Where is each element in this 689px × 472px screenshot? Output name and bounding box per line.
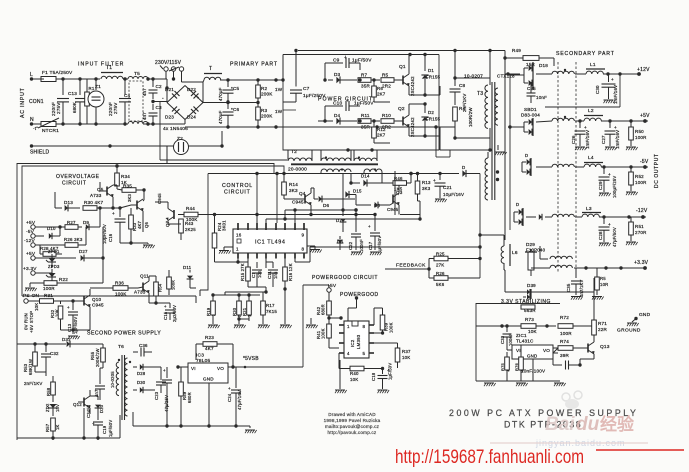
- svg-text:R15 27K: R15 27K: [240, 263, 245, 281]
- resistor R5 10R: [595, 268, 609, 295]
- red url fanhuanli: [395, 446, 584, 468]
- svg-text:4n7: 4n7: [142, 88, 147, 96]
- svg-text:AC INPUT: AC INPUT: [20, 87, 26, 118]
- svg-text:R31: R31: [44, 293, 53, 298]
- svg-text:+5V STOP: +5V STOP: [29, 311, 34, 333]
- block label INPUT FILTER: [78, 62, 124, 68]
- ground: [605, 147, 617, 150]
- svg-text:3K01: 3K01: [222, 220, 227, 231]
- svg-text:200K: 200K: [261, 114, 273, 119]
- svg-text:C36: C36: [139, 343, 148, 348]
- capacitor C15 2u2/50V: [163, 303, 177, 322]
- resistor R17 7K15: [261, 292, 278, 321]
- wire vertical x=160: [159, 102, 161, 161]
- wire shield: [30, 144, 224, 147]
- capacitor C27 1mF/16V: [601, 121, 620, 149]
- svg-text:-t°: -t°: [33, 126, 38, 131]
- wire: [225, 287, 268, 294]
- svg-text:R6: R6: [377, 86, 383, 91]
- svg-text:100K: 100K: [171, 280, 176, 290]
- capacitor C16 10uF/50V: [102, 208, 126, 244]
- svg-text:D29: D29: [526, 242, 535, 247]
- svg-text:du: du: [576, 414, 600, 435]
- svg-text:230V/115V: 230V/115V: [155, 60, 182, 66]
- ground: [495, 145, 507, 155]
- svg-text:R2: R2: [261, 86, 268, 91]
- wire vertical x277: [275, 172, 278, 223]
- svg-text:Bai: Bai: [545, 414, 575, 435]
- capacitor C35 4n7/1KV: [566, 268, 584, 297]
- svg-text:SBD1: SBD1: [524, 107, 537, 112]
- svg-text:D: D: [525, 153, 528, 158]
- svg-text:2SC4242: 2SC4242: [410, 117, 415, 137]
- transistor Q1 2SC4242: [399, 55, 415, 97]
- svg-text:35R: 35R: [361, 84, 371, 89]
- wire: [282, 172, 285, 182]
- svg-text:275V: 275V: [113, 102, 118, 114]
- capacitor C1 10n: [251, 262, 262, 287]
- resistor R74 39R: [553, 339, 586, 358]
- svg-text:Drawed with AmiCAD: Drawed with AmiCAD: [328, 412, 376, 417]
- resistor R31 10K: [34, 299, 78, 311]
- resistor R2 200K 1W: [256, 78, 283, 102]
- resistor R54: [149, 276, 163, 303]
- svg-text:D15: D15: [353, 189, 362, 194]
- svg-text:+: +: [608, 172, 611, 177]
- ground: [604, 100, 616, 103]
- wire bottom rail: [17, 408, 120, 440]
- resistor R46 1K5: [393, 172, 413, 192]
- wire: [61, 315, 91, 334]
- fuse F1: [41, 70, 73, 82]
- svg-text:C22: C22: [348, 241, 353, 250]
- schottky diode D29 F12C20: [525, 242, 546, 276]
- ground: [306, 318, 318, 328]
- svg-text:-12V: -12V: [636, 208, 648, 214]
- terminal +5V: [26, 220, 46, 229]
- svg-text:D28: D28: [137, 371, 146, 376]
- resistor R33 4K7: [129, 208, 142, 243]
- wire horizontal 173.5: [409, 172, 412, 175]
- svg-text:+: +: [163, 368, 166, 373]
- svg-text:100R: 100R: [560, 331, 572, 336]
- ground: [280, 291, 292, 328]
- svg-text:DC OUTPUT: DC OUTPUT: [654, 153, 660, 188]
- wire: [409, 127, 490, 150]
- capacitor C2 4n7: [142, 79, 162, 99]
- wire: [61, 77, 97, 80]
- bridge rectifier diode D23: [165, 103, 185, 120]
- resistor R3 200K 1W: [256, 102, 283, 129]
- control block box: [200, 172, 448, 290]
- transistor Q6 C945: [131, 190, 162, 232]
- varistor Z1: [88, 79, 104, 124]
- svg-text:VI: VI: [516, 348, 521, 353]
- capacitor C30 1mF/16V: [595, 74, 618, 104]
- wire +5VSB rail: [258, 285, 329, 367]
- label DC OUTPUT: [654, 153, 660, 188]
- svg-text:C19: C19: [102, 425, 107, 434]
- terminal +5V c: [327, 283, 337, 300]
- label CTX12B: [497, 72, 520, 78]
- wire from T3 to top: [488, 49, 491, 78]
- ground: [307, 246, 322, 253]
- wire: [213, 295, 260, 319]
- inductor L6: [501, 240, 518, 270]
- resistor R43 2K25: [168, 219, 196, 240]
- wire: [188, 131, 222, 146]
- ground: [484, 383, 496, 386]
- resistor R51 270R: [629, 217, 647, 241]
- svg-text:Q2: Q2: [398, 106, 405, 112]
- svg-text:R16 12K: R16 12K: [288, 263, 293, 281]
- svg-text:IC1 TL494: IC1 TL494: [255, 240, 285, 246]
- zener ZD2 18V: [45, 396, 60, 416]
- resistor R57 1K: [45, 418, 60, 440]
- inductor L2: [575, 108, 648, 121]
- +12V output: [606, 67, 650, 76]
- svg-text:R13: R13: [422, 180, 431, 185]
- svg-text:1998,1999 Pavel Ruzicka: 1998,1999 Pavel Ruzicka: [324, 418, 381, 423]
- svg-text:R43: R43: [185, 221, 194, 226]
- svg-text:+: +: [228, 386, 231, 391]
- block label POWER CIRCUIT: [318, 97, 373, 103]
- shield label: [30, 150, 49, 156]
- resistor R4 100R/2W: [453, 106, 473, 140]
- ground: [571, 297, 583, 300]
- resistor 563R: [521, 305, 536, 313]
- ground: [592, 297, 604, 300]
- svg-text:SECOND POWER SUPPLY: SECOND POWER SUPPLY: [87, 331, 161, 337]
- svg-text:D: D: [462, 165, 465, 170]
- diode D14: [349, 174, 393, 187]
- wire bottom rail: [185, 125, 455, 128]
- svg-text:+: +: [614, 125, 617, 130]
- capacitor C10 1uF/50V: [323, 98, 374, 123]
- svg-text:POWERGOOD CIRCUIT: POWERGOOD CIRCUIT: [312, 275, 378, 281]
- transistor Q5 A733: [90, 182, 117, 208]
- svg-text:+: +: [197, 95, 200, 100]
- svg-text:100K: 100K: [389, 322, 394, 333]
- ground: [370, 252, 382, 255]
- svg-text:FEEDBACK: FEEDBACK: [396, 263, 426, 269]
- inductor L4: [575, 155, 648, 167]
- diode D7: [336, 195, 346, 233]
- transformer T2 20-0000: [288, 149, 382, 173]
- ground: [626, 192, 638, 195]
- wire primary ground bus: [16, 163, 18, 165]
- svg-text:D1: D1: [428, 68, 434, 73]
- -12V output: [602, 208, 648, 219]
- diode D30: [133, 380, 155, 393]
- wire +12V sense: [545, 74, 620, 107]
- capacitor C7 1uF/250V: [283, 49, 326, 102]
- wire: [400, 201, 420, 219]
- svg-text:5K6: 5K6: [436, 282, 445, 287]
- svg-text:R51: R51: [635, 224, 644, 229]
- svg-text:+: +: [112, 211, 115, 216]
- svg-text:20-0000: 20-0000: [288, 167, 307, 173]
- svg-text:经验: 经验: [600, 414, 635, 434]
- svg-text:0V RUN: 0V RUN: [24, 313, 29, 330]
- svg-text:10-0207: 10-0207: [464, 74, 483, 80]
- svg-text:R10: R10: [382, 113, 391, 118]
- svg-text:+12V: +12V: [637, 67, 650, 73]
- svg-text:D27: D27: [79, 249, 88, 254]
- svg-text:ZPD1: ZPD1: [48, 249, 60, 254]
- resistor R50 100R: [629, 121, 647, 146]
- svg-text:R30 4K7: R30 4K7: [84, 200, 104, 205]
- ground: [335, 360, 347, 393]
- svg-text:+5V: +5V: [640, 113, 650, 119]
- svg-text:R71: R71: [598, 321, 607, 326]
- inductor T: [203, 66, 228, 82]
- svg-text:C945: C945: [92, 303, 104, 308]
- wire: [17, 344, 64, 376]
- svg-text:C945: C945: [292, 200, 304, 205]
- svg-text:R4: R4: [459, 106, 466, 111]
- svg-text:R22: R22: [59, 277, 68, 282]
- resistor R16 12K: [283, 259, 293, 292]
- svg-text:1μF/250V: 1μF/250V: [303, 93, 326, 99]
- resistor R55 200K/1W: [84, 344, 105, 368]
- wire top rail to primary: [228, 78, 283, 81]
- svg-text:100R: 100R: [43, 286, 55, 291]
- svg-text:100μF/25V: 100μF/25V: [612, 176, 617, 198]
- svg-text:680R: 680R: [321, 304, 326, 315]
- terminal -5V: [26, 229, 42, 238]
- transistor Q2 2SC4242: [398, 104, 415, 137]
- svg-text:C18: C18: [371, 372, 376, 381]
- earth symbol Z2: [174, 136, 189, 155]
- capacitor C4 220nF/275V: [108, 79, 131, 124]
- resistor R10 2R2: [381, 113, 403, 130]
- svg-text:R3: R3: [261, 108, 268, 113]
- ground: [351, 252, 363, 255]
- svg-text:22R: 22R: [598, 327, 608, 332]
- capacitor C13: [68, 79, 85, 124]
- svg-text:R57: R57: [45, 423, 50, 432]
- svg-text:35R: 35R: [361, 125, 371, 130]
- inductor L3: [575, 206, 646, 217]
- svg-text:100R/2W: 100R/2W: [468, 107, 473, 127]
- svg-text:9: 9: [302, 233, 305, 238]
- wire: [118, 205, 131, 210]
- capacitor C3 4n7: [142, 100, 162, 124]
- svg-text:R7: R7: [361, 73, 368, 78]
- svg-text:GND: GND: [639, 312, 651, 318]
- svg-text:OVERVOLTAGE: OVERVOLTAGE: [56, 174, 100, 180]
- svg-text:C11: C11: [267, 271, 272, 279]
- wire horizontal y=296: [22, 296, 196, 303]
- svg-text:L: L: [30, 72, 33, 78]
- svg-text:D18: D18: [539, 63, 548, 68]
- resistor R75 100K: [500, 352, 510, 381]
- svg-text:+: +: [584, 125, 587, 130]
- wire long horizontal y=160: [160, 159, 287, 161]
- svg-text:3K3: 3K3: [127, 193, 132, 202]
- wire vertical x=222: [221, 131, 223, 146]
- ground: [435, 199, 447, 202]
- svg-text:270R: 270R: [635, 230, 647, 235]
- svg-text:R34: R34: [121, 174, 130, 179]
- svg-text:D13: D13: [64, 200, 73, 205]
- capacitor C36: [133, 343, 152, 357]
- transistor Q7 C945: [155, 202, 174, 227]
- svg-text:C32: C32: [50, 351, 59, 356]
- capacitor C21 10uF/16V: [433, 174, 464, 199]
- terminal N: [30, 117, 34, 126]
- resistor R14 3K3: [282, 182, 299, 199]
- ground: [626, 147, 638, 150]
- svg-text:470μF: 470μF: [218, 110, 223, 124]
- svg-text:1n5: 1n5: [273, 271, 278, 279]
- resistor R27: [46, 220, 82, 229]
- svg-text:R14: R14: [289, 182, 298, 187]
- wire vertical x257: [255, 172, 258, 223]
- inductor T1: [101, 65, 123, 79]
- svg-text:10K: 10K: [528, 329, 538, 334]
- svg-text:R11: R11: [361, 113, 370, 118]
- svg-text:GND: GND: [203, 377, 214, 382]
- svg-text:100K: 100K: [321, 328, 326, 339]
- ground: [599, 243, 611, 246]
- svg-text:GND: GND: [527, 354, 537, 359]
- svg-text:PRIMARY PART: PRIMARY PART: [230, 62, 278, 68]
- ground: [219, 247, 233, 254]
- wire secondary vertical bus 2: [508, 75, 511, 230]
- svg-text:-: -: [162, 96, 164, 102]
- wire L: [31, 78, 100, 80]
- 3.3V block box: [476, 304, 560, 382]
- red underline: [596, 449, 684, 451]
- resistor R45 100K: [167, 270, 176, 295]
- wire feedback bus x480: [478, 174, 504, 279]
- svg-text:*C6: *C6: [231, 107, 240, 112]
- title DTK PTP-2038: [504, 420, 582, 430]
- svg-text:R26 3K3: R26 3K3: [64, 237, 83, 242]
- wire +5V to powergood: [381, 307, 383, 309]
- diode D12: [448, 165, 480, 177]
- capacitor C8 2nF/1KV: [450, 49, 468, 112]
- +3.3V output: [574, 260, 649, 270]
- svg-text:L3: L3: [586, 206, 592, 212]
- capacitor C28 47uF/50V: [598, 217, 617, 247]
- svg-text:1: 1: [236, 247, 239, 252]
- wire bottom rail 2: [162, 383, 250, 428]
- resistor R71 22R: [592, 311, 608, 339]
- dual diode D18: [508, 62, 548, 90]
- svg-text:D2: D2: [428, 110, 434, 115]
- resistor R72 100R: [545, 315, 594, 336]
- block label POWERGOOD CIRCUIT: [312, 275, 378, 281]
- resistor R40b 10K: [339, 353, 383, 382]
- bridge rectifier diode D22: [185, 86, 203, 103]
- svg-text:4x 1N5406: 4x 1N5406: [163, 126, 188, 132]
- diode D10: [42, 226, 60, 239]
- capacitor C18 1uF/50V: [371, 363, 393, 389]
- label POWERGOOD: [340, 292, 379, 321]
- svg-text:Q11: Q11: [140, 274, 149, 279]
- transformer T6: [110, 344, 131, 420]
- svg-text:L6: L6: [512, 250, 518, 256]
- resistor R6 2K7: [372, 78, 390, 102]
- capacitor C25 10nF: [527, 82, 548, 103]
- credit text AmiCAD: [324, 412, 381, 435]
- svg-text:ZIC1: ZIC1: [516, 333, 527, 338]
- svg-text:1W: 1W: [275, 87, 283, 92]
- svg-text:R37: R37: [402, 349, 411, 354]
- svg-text:ZPD3: ZPD3: [48, 264, 60, 269]
- svg-text:1μF/50V: 1μF/50V: [108, 420, 113, 437]
- svg-text:+3.3V: +3.3V: [23, 266, 37, 272]
- svg-text:3K3: 3K3: [422, 186, 431, 191]
- resistor R22 100R: [30, 277, 68, 291]
- transistor Q3 C945: [387, 183, 403, 215]
- block label 3.3V STABILIZING: [501, 299, 551, 305]
- dual diode D39: [523, 283, 536, 300]
- svg-text:+: +: [433, 178, 436, 183]
- svg-text:T2: T2: [291, 149, 297, 155]
- svg-text:D14: D14: [361, 174, 370, 179]
- transistor Q12 C3457: [73, 390, 91, 418]
- capacitor C24 47uF/16V: [227, 367, 242, 426]
- capacitor C5 470uF: [218, 78, 240, 102]
- overvoltage block box: [17, 164, 274, 441]
- ground: [599, 180, 611, 196]
- svg-text:-5V: -5V: [640, 159, 649, 165]
- power circuit box: [283, 55, 439, 151]
- resistor R23 4K7: [196, 335, 228, 360]
- svg-text:CIRCUIT: CIRCUIT: [224, 190, 251, 196]
- wire y219: [266, 217, 422, 223]
- svg-text:10μF/16V: 10μF/16V: [443, 192, 464, 197]
- svg-text:10K: 10K: [350, 377, 358, 382]
- svg-text:Q13: Q13: [600, 344, 610, 350]
- svg-text:R36: R36: [115, 281, 124, 286]
- svg-text:R40: R40: [350, 371, 359, 376]
- svg-text:C17: C17: [368, 241, 373, 250]
- ground: [575, 147, 587, 150]
- resistor R53 68K/1W: [23, 342, 37, 375]
- svg-text:C16: C16: [108, 233, 113, 242]
- ground: [143, 243, 155, 248]
- resistor R26b 3K3: [40, 227, 86, 247]
- svg-text:VI: VI: [191, 366, 196, 371]
- resistor R34 1K: [115, 164, 131, 189]
- svg-text:R50: R50: [635, 129, 644, 134]
- svg-text:R74: R74: [560, 339, 569, 344]
- svg-text:4: 4: [347, 351, 350, 356]
- wire mid rail: [226, 101, 259, 104]
- capacitor C9 1uF/50V: [323, 55, 372, 82]
- svg-text:15R: 15R: [526, 62, 536, 67]
- svg-text:T3: T3: [477, 91, 483, 97]
- resistor R73 10K: [497, 317, 556, 334]
- zener diode D15: [343, 174, 362, 205]
- watermark baidu logo: [545, 391, 635, 435]
- ground symbol: [617, 323, 641, 334]
- svg-text:T: T: [209, 66, 212, 72]
- zener ZPD1: [44, 249, 60, 268]
- svg-text:8: 8: [302, 247, 305, 252]
- svg-text:INPUT FILTER: INPUT FILTER: [78, 62, 124, 68]
- bridge polarity marks: [162, 95, 200, 102]
- capacitor C19 1uF/50V: [92, 416, 113, 440]
- ground: [208, 321, 220, 328]
- wire 3.3V block: [476, 324, 504, 327]
- svg-text:TL431C: TL431C: [516, 339, 534, 344]
